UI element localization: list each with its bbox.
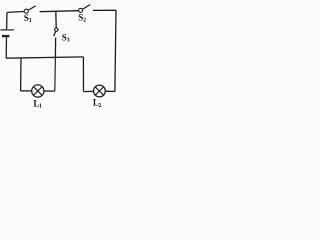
switch S3 open blade (54, 31, 56, 36)
wire: lamp L1 loop left vertical (20, 58, 22, 91)
svg-text:1: 1 (29, 18, 32, 24)
wire: lamp L1 loop right vertical from S3 node (54, 57, 57, 91)
wire: left vertical below battery down to bottom-left corner (5, 37, 7, 58)
wire: top wire from S2 to top-right corner (93, 9, 116, 11)
svg-text:2: 2 (83, 18, 86, 24)
wire: lamp L1 bottom left segment (21, 90, 32, 92)
switch S3 pivot circle (55, 28, 58, 31)
wire: lamp L2 bottom right segment (105, 90, 115, 92)
svg-text:3: 3 (67, 37, 70, 43)
lamp L1 bulb circle (32, 85, 44, 97)
wire: top wire from S1 to switch S2, with node at S3 branch (40, 11, 79, 12)
wire: middle horizontal bus from bottom-left corner to right lamp branch (6, 57, 83, 58)
switch S1 open blade (28, 6, 36, 10)
wire: right vertical side down to lamp L2 loop (115, 10, 116, 91)
battery cell: short thick negative plate (2, 35, 9, 37)
switch S2 pivot circle (79, 8, 83, 12)
svg-text:2: 2 (98, 103, 101, 108)
battery cell: long positive plate (0, 29, 14, 31)
wire: middle branch from S3 down to node on horizontal wire (54, 38, 56, 58)
switch S2 open blade (83, 5, 91, 10)
wire: top wire from top-left corner to switch S1 (7, 11, 24, 14)
wire: lamp L2 bottom left segment (84, 90, 94, 92)
wire: lamp L2 loop left vertical (82, 57, 84, 92)
wire: left vertical, top-left corner down to battery (6, 12, 8, 29)
switch S1 pivot circle (24, 9, 28, 13)
svg-text:1: 1 (39, 104, 42, 108)
lamp L1 cross (34, 87, 43, 96)
wire: middle branch from top wire down to switch S3 (55, 12, 57, 28)
lamp L2 cross (95, 87, 103, 95)
wire: lamp L1 bottom right segment (44, 90, 55, 92)
lamp L2 bulb circle (94, 85, 106, 97)
